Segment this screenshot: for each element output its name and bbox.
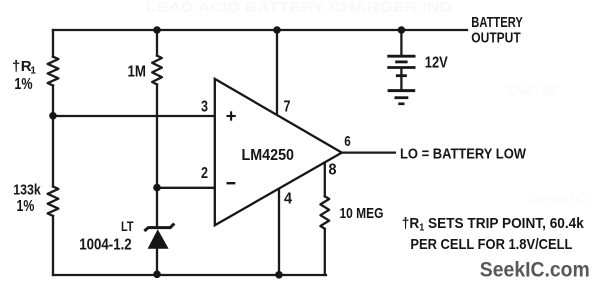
svg-text:1004-1.2: 1004-1.2 [79, 237, 132, 254]
svg-text:2: 2 [201, 165, 208, 182]
svg-text:12V: 12V [425, 55, 449, 72]
svg-text:†R1 SETS TRIP POINT, 60.4k: †R1 SETS TRIP POINT, 60.4k [402, 215, 585, 234]
svg-text:10 MEG: 10 MEG [340, 205, 384, 222]
svg-text:133k: 133k [13, 182, 41, 198]
svg-text:LM4250: LM4250 [242, 147, 295, 164]
svg-text:4: 4 [284, 191, 292, 208]
svg-text:1%: 1% [17, 198, 35, 215]
svg-text:LO = BATTERY LOW: LO = BATTERY LOW [400, 146, 527, 163]
svg-text:1N4148: 1N4148 [506, 82, 558, 98]
svg-text:6: 6 [344, 134, 351, 150]
svg-text:1%: 1% [14, 76, 32, 93]
svg-text:SeekIC.com: SeekIC.com [480, 258, 590, 282]
svg-text:7: 7 [284, 99, 291, 116]
svg-text:LEAD ACID BATTERY CHARGER IND: LEAD ACID BATTERY CHARGER IND [146, 0, 452, 16]
svg-text:OUTPUT: OUTPUT [471, 30, 521, 47]
svg-text:8: 8 [329, 162, 337, 179]
svg-text:PER CELL FOR 1.8V/CELL: PER CELL FOR 1.8V/CELL [410, 236, 572, 253]
svg-text:LT: LT [121, 218, 134, 234]
svg-text:1M: 1M [128, 64, 147, 81]
svg-text:SeekIC: SeekIC [528, 190, 588, 206]
svg-text:BATTERY: BATTERY [471, 14, 523, 31]
svg-text:3: 3 [201, 99, 208, 116]
